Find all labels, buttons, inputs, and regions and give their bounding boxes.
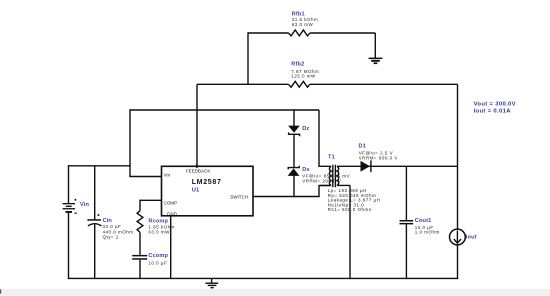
wire right rail xyxy=(457,84,459,279)
capacitor Cout1 xyxy=(400,166,440,279)
resistor Rfb2 xyxy=(289,61,320,87)
svg-text:VRRM= 800.0 V: VRRM= 800.0 V xyxy=(359,155,398,160)
wire Rfb1-Rfb2 vertical link xyxy=(247,32,249,84)
svg-text:63.0 mW: 63.0 mW xyxy=(292,22,314,27)
svg-text:GND: GND xyxy=(167,211,177,216)
svg-text:SWITCH: SWITCH xyxy=(230,195,248,200)
svg-text:Vin: Vin xyxy=(80,202,89,208)
capacitor Cin xyxy=(87,166,133,279)
red edge mark xyxy=(0,289,1,293)
resistor Rfb1 xyxy=(289,11,319,36)
svg-text:Ccomp: Ccomp xyxy=(148,253,168,259)
svg-text:FEEDBACK: FEEDBACK xyxy=(186,168,210,173)
svg-text:10.0 µF: 10.0 µF xyxy=(148,260,167,265)
resistor Rcomp xyxy=(137,200,175,255)
node Vout/Iout annotation xyxy=(474,102,516,115)
svg-text:Cout1: Cout1 xyxy=(415,218,432,224)
IC U1 LM2587 xyxy=(162,164,254,217)
svg-text:Qty= 2: Qty= 2 xyxy=(103,235,119,240)
wire GND vertical xyxy=(170,216,172,279)
wire Vin-pin branch xyxy=(130,109,162,176)
svg-text:Cin: Cin xyxy=(103,218,113,224)
svg-text:Iout: Iout xyxy=(466,234,477,240)
svg-text:125.0 mW: 125.0 mW xyxy=(291,73,316,78)
svg-text:COMP: COMP xyxy=(164,200,178,205)
svg-text:1.0 mOhm: 1.0 mOhm xyxy=(415,230,440,235)
svg-text:63.0 mW: 63.0 mW xyxy=(148,230,170,235)
bottom grey status strip xyxy=(0,289,550,296)
svg-text:Vout = 300.0V: Vout = 300.0V xyxy=(474,102,516,108)
diode Dz xyxy=(288,126,309,137)
diode D1 xyxy=(359,144,398,173)
wire FEEDBACK vertical xyxy=(196,84,198,166)
svg-text:Iout = 0.01A: Iout = 0.01A xyxy=(474,109,512,115)
svg-text:Vin: Vin xyxy=(164,173,171,178)
transformer T1 xyxy=(319,110,380,279)
current source Iout xyxy=(450,229,477,245)
svg-text:LM2587: LM2587 xyxy=(192,179,222,186)
ground top (Rfb1 ground) xyxy=(369,33,383,64)
diode Ds xyxy=(288,166,350,184)
capacitor Ccomp xyxy=(132,253,168,279)
ground bottom xyxy=(205,278,218,288)
wire Rfb1 row xyxy=(248,32,375,34)
wire Vin rail y=110 xyxy=(130,109,319,111)
svg-text:Dz: Dz xyxy=(302,126,309,132)
svg-text:Rfb2: Rfb2 xyxy=(291,61,304,67)
wire D1 output row xyxy=(337,165,458,167)
wire SWITCH row xyxy=(253,186,331,197)
svg-text:U1: U1 xyxy=(192,188,200,194)
wire COMP xyxy=(140,199,162,201)
svg-text:Rs1= 600.0 Ohms: Rs1= 600.0 Ohms xyxy=(328,207,372,212)
svg-text:T1: T1 xyxy=(328,154,335,160)
svg-text:D1: D1 xyxy=(359,144,366,150)
svg-text:Ds: Ds xyxy=(302,167,309,173)
battery Vin xyxy=(63,165,90,279)
wire left rail xyxy=(69,165,131,167)
diode Dz branch wire xyxy=(293,109,295,197)
wire Rfb2 row xyxy=(197,83,458,85)
wire bottom rail xyxy=(68,277,458,279)
svg-text:Rcomp: Rcomp xyxy=(148,219,168,225)
